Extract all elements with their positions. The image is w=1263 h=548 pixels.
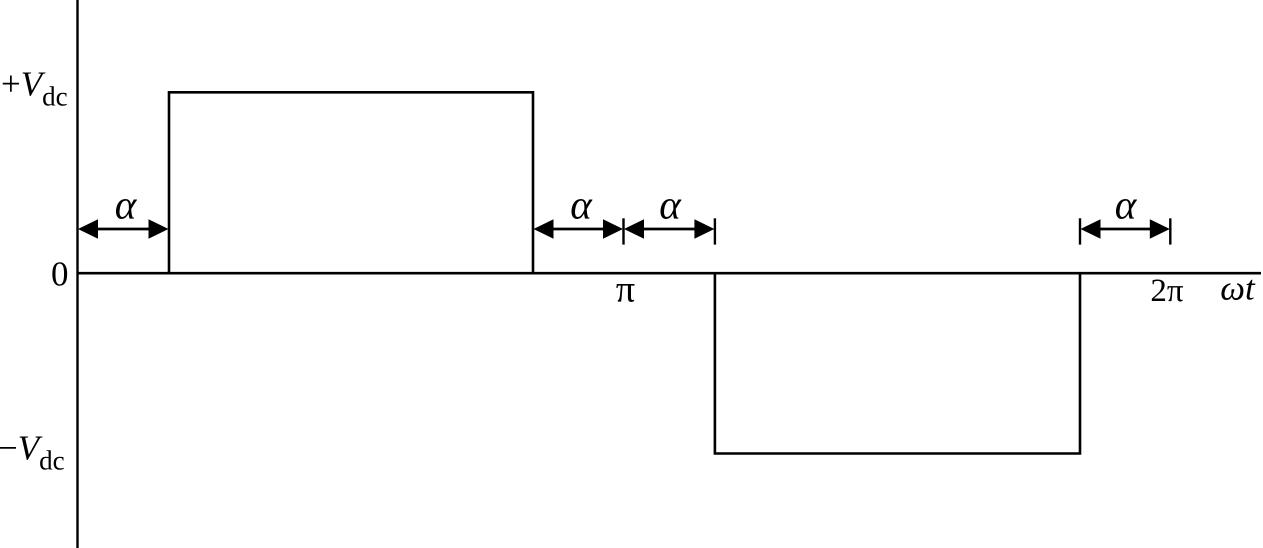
svg-text:2π: 2π — [1150, 273, 1184, 309]
svg-text:α: α — [659, 182, 682, 228]
svg-text:0: 0 — [51, 255, 69, 294]
svg-text:π: π — [616, 269, 635, 311]
svg-text:α: α — [115, 182, 138, 228]
svg-text:α: α — [570, 182, 593, 228]
svg-text:α: α — [1115, 182, 1138, 228]
svg-text:ωt: ωt — [1220, 269, 1256, 308]
